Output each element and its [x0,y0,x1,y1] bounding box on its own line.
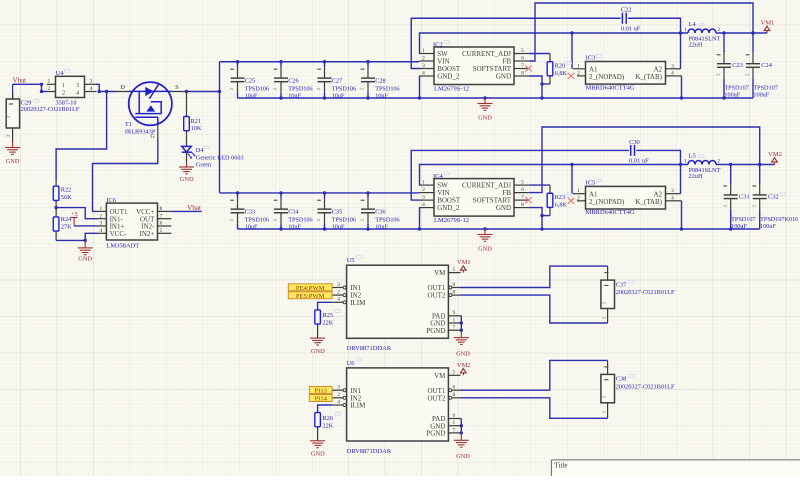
junction C out 1 [722,31,725,34]
wire output ch2 [716,164,775,166]
ground at U5 PGND [454,330,469,344]
svg-text:6: 6 [453,282,456,288]
svg-text:C34: C34 [288,209,299,216]
driver U5 DRV8871DDAR [332,265,461,338]
svg-text:10K: 10K [191,125,202,132]
capacitor C36 TPSD106 10uF [360,193,375,229]
junction [418,227,421,230]
wire GND_2 down [419,208,421,229]
svg-text:0.01 uF: 0.01 uF [629,158,649,165]
wire U5 OUT2 to C37 [460,295,607,323]
wire GND_2 down [419,76,421,98]
svg-text:GND: GND [496,73,511,81]
svg-text:1: 1 [453,317,456,323]
svg-text:0.01 uF: 0.01 uF [621,25,641,32]
svg-text:2: 2 [717,27,720,33]
junction [540,82,543,85]
svg-text:3: 3 [671,63,674,69]
junction cap top [236,60,239,63]
junction cap top [236,191,239,194]
svg-text:9: 9 [453,413,456,419]
svg-text:PGND: PGND [426,327,445,335]
wire VCC+ to Vbat [171,210,201,212]
resistor R23 6,8K [547,185,553,216]
svg-text:C32: C32 [768,193,779,200]
junction cap bottom [323,227,326,230]
svg-text:7: 7 [521,63,524,69]
connector C37 (20020327-C021B01LF) [601,266,615,323]
junction cap top [366,191,369,194]
svg-text:6: 6 [453,385,456,391]
capacitor C28 TPSD106 10uF [360,62,375,98]
junction cap bottom [366,227,369,230]
svg-text:1: 1 [453,420,456,426]
svg-text:2: 2 [717,158,720,164]
svg-text:3: 3 [90,79,93,85]
power port VM2 [768,151,782,165]
junction C out 1 [729,163,732,166]
T1 drain pin [116,91,129,93]
svg-text:VM1: VM1 [761,20,775,27]
wire divider to IN1- [56,208,97,219]
svg-text:C27: C27 [332,78,343,85]
junction [680,96,683,99]
svg-text:C30: C30 [629,139,640,146]
capacitor C23 TPSD107 100uF [716,33,731,98]
junction [729,227,732,230]
svg-text:TPSD106: TPSD106 [245,85,269,92]
resistor R26 22K [315,413,321,441]
wire VCC- down [85,233,97,240]
wire IC4 GND pin down [529,208,542,229]
no-connect X on IC3 pin2 [568,73,575,79]
driver U6 DRV8871DDAR [332,368,461,441]
svg-text:2: 2 [62,90,65,97]
svg-text:2: 2 [422,56,425,62]
wire C30 to SW [636,150,680,164]
wire drain node [99,91,116,93]
resistor R24 27K [53,208,59,241]
svg-text:TPSD107: TPSD107 [724,84,748,91]
junction [460,321,463,324]
svg-text:C31: C31 [739,193,750,200]
svg-text:TPSD106: TPSD106 [375,217,399,224]
wire K to GND bus [681,76,683,98]
svg-text:Title: Title [555,462,568,470]
wire FB ch2 [529,127,760,193]
regulator IC2 LM2679S-12 [419,47,529,85]
compile marker [65,70,71,73]
resistor R22 56K [53,179,59,208]
svg-text:L4: L4 [689,21,697,28]
junction [460,424,463,427]
junction gnd stub [483,227,486,230]
wire CURRENT_ADJ to R23 [529,184,550,186]
svg-text:GND: GND [6,158,20,165]
junction at R21 [185,90,188,93]
svg-text:C26: C26 [288,78,299,85]
wire R23 bottom [542,215,550,217]
transistor T1 IRLR9343P (P-MOSFET) [129,82,172,125]
svg-text:VM: VM [434,269,446,277]
svg-text:VCC-: VCC- [110,230,127,238]
wire R20 bottom [542,83,550,85]
svg-text:2: 2 [47,86,50,92]
svg-text:5: 5 [160,228,163,234]
svg-text:Generic LED 0603: Generic LED 0603 [196,154,244,161]
svg-text:IN2+: IN2+ [140,230,155,238]
svg-text:3: 3 [99,221,102,227]
junction divider [54,206,57,209]
svg-text:GND_2: GND_2 [437,204,460,212]
junction at bus [218,90,221,93]
wire drain to R22 [56,92,107,180]
svg-text:1: 1 [577,188,580,194]
capacitor C32 100uF [751,165,766,230]
regulator IC4 LM2679S-12 [419,179,529,217]
wire U6 OUT1 to C38 [460,360,607,390]
wire SW node ch2 [420,165,689,186]
wire K to GND bus [681,201,683,229]
wire A2 to SW [680,165,682,194]
svg-text:GND: GND [180,176,194,183]
compile marker [780,193,786,196]
junction [105,90,108,93]
resistor R20 6,8K [547,54,553,85]
svg-text:3: 3 [422,195,425,201]
junction C out 2 [758,163,761,166]
svg-text:TPSD106: TPSD106 [245,217,269,224]
wire R24 bottom to gnd node [56,239,85,241]
svg-text:Vbat: Vbat [13,76,27,84]
connector C38 (20020327-C021B01LF) [601,360,615,418]
svg-text:GND: GND [456,453,470,460]
ground below R25 [310,338,325,345]
svg-text:8: 8 [453,290,456,296]
svg-text:GND: GND [456,351,470,358]
svg-text:8: 8 [160,206,163,212]
wire to U4 pin2 [42,84,47,91]
wire VIN bus ch1 [220,61,420,63]
highlighted net label PE4:PWM [288,284,332,291]
svg-text:3: 3 [337,282,340,288]
resistor R25 22K [315,310,321,338]
svg-text:6,8K: 6,8K [555,70,568,77]
svg-text:VM: VM [434,372,446,380]
svg-text:5: 5 [453,267,456,273]
svg-text:4: 4 [671,70,674,76]
svg-text:Vbat: Vbat [187,204,201,212]
wire BOOST to C30 [411,150,629,200]
ground below R26 [310,440,325,447]
svg-text:1: 1 [422,180,425,186]
compile marker [596,179,602,182]
capacitor C31 TPSD107 100uF [722,165,737,230]
no-connect X on IC5 pin2 [568,198,575,204]
capacitor C22 0.01 uF [622,13,626,24]
ground below C29 [5,142,20,155]
svg-text:7: 7 [453,427,456,433]
svg-text:GND: GND [78,256,92,263]
ground ch1 [478,98,493,110]
svg-text:2: 2 [577,70,580,76]
highlighted net label PE5:PWM [288,292,332,299]
junction cap bottom [323,96,326,99]
svg-text:7: 7 [521,195,524,201]
svg-text:6,8K: 6,8K [555,202,568,209]
svg-text:8: 8 [453,392,456,398]
junction gnd node [84,239,87,242]
svg-text:2: 2 [422,187,425,193]
junction [40,83,43,86]
svg-text:22K: 22K [323,320,334,327]
svg-text:4: 4 [76,90,79,97]
compile marker [566,62,572,65]
svg-text:8: 8 [521,71,524,77]
svg-text:22K: 22K [323,422,334,429]
svg-text:27K: 27K [61,223,72,230]
compile marker [335,310,341,313]
junction [570,31,573,34]
capacitor C26 TPSD106 10uF [273,62,288,98]
wire gate to OUT1 [93,140,158,212]
wire U6 OUT2 to C38 [460,398,607,419]
junction [418,96,421,99]
wire ILIM to R26 [318,405,333,413]
svg-text:ILIM: ILIM [350,402,366,410]
svg-text:4: 4 [422,71,425,77]
svg-text:C25: C25 [245,78,256,85]
svg-text:4: 4 [671,195,674,201]
svg-text:TPSD106: TPSD106 [332,217,356,224]
compile marker [629,280,635,283]
svg-text:2: 2 [337,392,340,398]
capacitor C27 TPSD106 10uF [316,62,331,98]
compile marker [444,41,450,44]
wire Vbat to U4 pin1 [13,83,42,85]
svg-text:TPSD106: TPSD106 [375,85,399,92]
wire U4 pin3 down [96,84,99,91]
wire U5 pad gnd join [460,316,462,330]
svg-text:U6: U6 [347,360,356,367]
svg-text:4: 4 [90,86,93,92]
diode IC3 MBRD640CTT4G [573,62,682,85]
svg-text:1: 1 [422,48,425,54]
compile marker [566,193,572,196]
svg-text:4: 4 [99,228,102,234]
wire source node [187,91,220,93]
svg-text:C23: C23 [732,62,743,69]
title block [551,460,800,476]
svg-text:IC2: IC2 [433,41,443,48]
wire output ch1 [716,32,767,34]
svg-text:9: 9 [453,310,456,316]
junction cap top [323,60,326,63]
svg-text:C24: C24 [761,62,772,69]
svg-text:LM2679S-12: LM2679S-12 [434,85,469,92]
ground below IC6 [78,240,93,254]
junction [460,329,463,332]
junction [540,214,543,217]
svg-text:T1: T1 [125,121,132,128]
svg-text:6: 6 [160,221,163,227]
svg-text:5: 5 [521,180,524,186]
svg-text:4: 4 [337,399,340,405]
wire GND bus ch2 [238,228,760,230]
wire +5 to IN1+ [74,225,97,227]
svg-text:PE4:PWM: PE4:PWM [296,285,325,292]
wire SW node ch1 [420,33,689,54]
svg-text:U4: U4 [56,70,65,77]
junction [460,431,463,434]
capacitor C30 0.01 uF [631,145,635,156]
compile marker [596,55,602,58]
svg-text:3587-10: 3587-10 [56,100,77,107]
svg-text:22uH: 22uH [689,42,703,49]
svg-text:1: 1 [99,206,102,212]
svg-text:OUT2: OUT2 [428,394,446,402]
wire A2 to SW [680,33,682,69]
svg-text:LM358ADT: LM358ADT [106,242,139,249]
svg-text:D: D [120,84,125,91]
junction cap top [279,191,282,194]
svg-text:1: 1 [577,63,580,69]
svg-text:R22: R22 [61,187,72,194]
svg-text:1: 1 [684,27,687,33]
ground at U6 PGND [454,433,469,447]
junction [40,90,43,93]
wire C22 to SW [628,18,681,33]
svg-text:100uF: 100uF [724,92,740,99]
wire GND bus ch1 [238,97,754,99]
highlighted net label PI14 [309,395,332,402]
junction cap top [323,191,326,194]
wire down to C29 [12,84,14,98]
compile marker [204,146,210,149]
wire VIN bus ch2 [220,192,420,194]
junction boost cap / diode [679,163,682,166]
svg-text:100uF: 100uF [731,223,747,230]
svg-text:GND: GND [478,246,492,253]
svg-text:TPSD107: TPSD107 [731,216,755,223]
compile marker [356,358,362,361]
svg-text:IC4: IC4 [433,173,444,180]
svg-text:8: 8 [521,202,524,208]
svg-text:56K: 56K [61,194,72,201]
junction [540,227,543,230]
svg-text:7: 7 [453,325,456,331]
svg-text:R23: R23 [555,194,566,201]
T1 gate pin [157,124,159,140]
svg-text:GND: GND [496,204,511,212]
svg-text:IC3: IC3 [586,55,596,62]
svg-text:IC6: IC6 [106,197,117,204]
svg-text:4: 4 [337,297,340,303]
svg-text:D4: D4 [196,147,205,154]
junction cap top [366,60,369,63]
compile marker [629,375,635,378]
svg-text:6: 6 [521,187,524,193]
svg-text:C28: C28 [375,78,386,85]
wire A1 to SW [571,33,573,69]
svg-text:C37: C37 [616,281,627,288]
junction C out 2 [751,31,754,34]
wire U6 pad gnd join [460,419,462,433]
svg-text:2_(NOPAD): 2_(NOPAD) [589,198,625,206]
svg-text:U5: U5 [347,257,355,264]
svg-text:R25: R25 [323,312,334,319]
svg-text:PGND: PGND [426,430,445,438]
capacitor C25 TPSD106 10uF [229,62,244,98]
diode IC5 MBRD640CTT4G [573,186,682,209]
compile marker [335,412,341,415]
svg-text:Green: Green [196,162,212,169]
inductor L5 P0841SLNT 22uH [688,161,716,165]
junction FB/output [751,31,754,34]
svg-text:100uF: 100uF [753,92,769,99]
svg-text:GND: GND [311,451,325,458]
power port VM1 [761,20,775,34]
junction cap bottom [366,96,369,99]
compile marker [699,155,705,158]
junction [540,96,543,99]
svg-text:S: S [175,84,179,91]
junction [722,96,725,99]
svg-text:PI14: PI14 [314,396,327,403]
svg-text:TPSD107K016: TPSD107K016 [760,216,798,223]
no-connect X on IC2 SOFTSTART [525,65,532,71]
wire U5 OUT1 to C37 [460,266,607,287]
junction [680,227,683,230]
svg-text:22uH: 22uH [689,173,703,180]
wire BOOST to C22 [411,18,620,68]
compile marker [34,100,40,103]
svg-text:VM1: VM1 [457,259,471,266]
svg-text:MBRD640CTT4G: MBRD640CTT4G [586,209,635,216]
svg-text:IC5: IC5 [586,180,596,187]
svg-text:3: 3 [422,63,425,69]
svg-text:C33: C33 [245,209,256,216]
compile marker [699,23,705,26]
svg-text:5: 5 [521,48,524,54]
svg-text:3: 3 [76,82,79,89]
svg-text:100uF: 100uF [760,223,776,230]
op-amp IC6 LM358ADT [98,203,172,240]
svg-text:K_(TAB): K_(TAB) [635,73,662,81]
ground ch2 [478,229,493,241]
svg-text:1: 1 [62,82,65,89]
wire ILIM to R25 [318,302,333,310]
wire IC2 GND pin down [529,76,542,98]
capacitor C24 100uF [745,33,760,98]
highlighted net label PI13 [309,387,332,394]
svg-text:6: 6 [521,56,524,62]
svg-text:R26: R26 [323,415,334,422]
wire FB ch1 [529,3,753,61]
wire A1 to SW [571,165,573,194]
svg-text:GND: GND [311,348,325,355]
junction [98,90,101,93]
svg-text:GND_2: GND_2 [437,73,460,81]
T1 source pin [172,91,187,93]
svg-text:20020327-C021B01LF: 20020327-C021B01LF [616,383,675,390]
svg-text:1: 1 [47,79,50,85]
svg-text:OUT2: OUT2 [428,292,446,300]
svg-text:C35: C35 [332,209,343,216]
svg-text:MBRD640CTT4G: MBRD640CTT4G [586,84,635,91]
svg-text:TPSD107: TPSD107 [753,84,777,91]
power port VM2 at U6 [457,362,471,376]
